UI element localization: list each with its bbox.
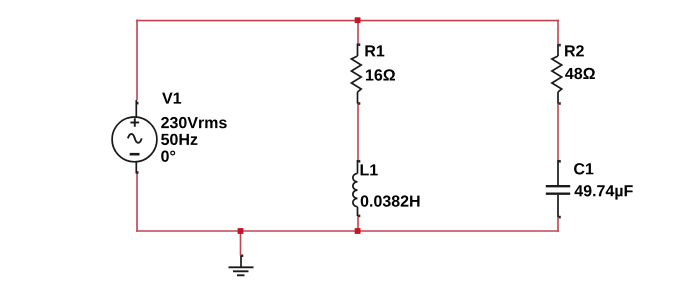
value 230Vrms: [161, 117, 227, 128]
resistor R1: [351, 44, 361, 104]
inductor L1: [353, 160, 358, 216]
wire right vertical mid (R2 to C1): [557, 104, 559, 161]
value 16 ohm: [366, 69, 395, 80]
wire middle branch bottom (L1 to bottom node): [357, 216, 359, 231]
value 49.74uF: [575, 185, 633, 200]
label V1: [162, 93, 181, 104]
label C1: [574, 163, 593, 174]
junction node bottom bus / ground: [238, 228, 244, 234]
pin nub R2 bottom: [559, 102, 561, 105]
wire left vertical lower (V1 to bottom bus): [136, 174, 138, 232]
pin nub R1 bottom: [358, 102, 360, 105]
wire right vertical top (top bus to R2): [557, 20, 559, 45]
value 0.0382H: [361, 195, 420, 206]
junction node bottom bus / middle branch: [355, 228, 361, 234]
value 0 degrees: [161, 151, 175, 162]
AC voltage source V1 (body circle, sine, polarity marks, leads): [112, 100, 157, 174]
value 48 ohm: [565, 68, 595, 79]
pin nub V1 top: [136, 102, 138, 105]
wire left vertical upper (top bus to V1): [136, 20, 138, 101]
wire ground stub: [240, 231, 242, 256]
pin nub C1 top: [559, 160, 561, 163]
wire middle branch mid (R1 to L1): [357, 104, 359, 161]
resistor R2: [552, 44, 562, 104]
value 50Hz: [161, 134, 197, 145]
pin nub V1 bottom: [136, 171, 138, 174]
wire top bus: [136, 20, 559, 22]
ground: [229, 256, 254, 276]
pin nub R2 top: [559, 44, 561, 47]
pin nub C1 bottom: [559, 216, 561, 219]
wire bottom bus: [136, 230, 559, 232]
junction node top bus / middle branch: [355, 17, 361, 23]
pin nub L1 top: [358, 160, 360, 163]
label L1: [361, 164, 378, 175]
wire middle branch top (node to R1): [357, 20, 359, 44]
pin nub R1 top: [358, 43, 360, 46]
label R1: [365, 45, 384, 56]
wire right vertical bottom (C1 to bottom bus): [557, 217, 559, 232]
pin nub ground top: [241, 254, 243, 257]
capacitor C1: [546, 160, 570, 217]
label R2: [565, 45, 584, 56]
pin nub L1 bottom: [358, 215, 360, 218]
